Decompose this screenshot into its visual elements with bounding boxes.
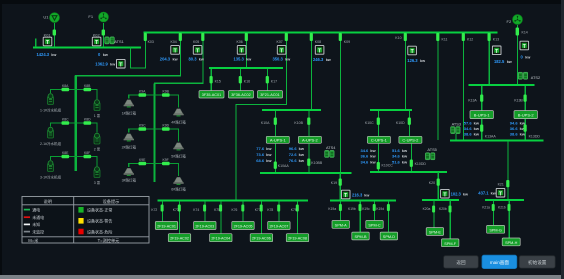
values under B-UPS-2: [510, 121, 526, 137]
svg-text:K19b: K19b: [348, 207, 356, 211]
lamp box 4: [173, 109, 183, 117]
svg-text:M=米: M=米: [28, 237, 39, 244]
breaker pill K10BB: [307, 159, 310, 166]
breaker pill K13A: [480, 95, 483, 102]
breaker pill K74: [203, 205, 206, 212]
breaker pill K11: [436, 33, 439, 41]
measuring unit K10: [408, 46, 417, 55]
svg-text:ATS5: ATS5: [427, 147, 436, 152]
bus SPM-E sub-bus: [422, 199, 459, 201]
svg-text:U1: U1: [43, 14, 49, 19]
bus CB2 (C bottom bus): [370, 171, 447, 173]
wire ladder trunk 2: [153, 83, 155, 182]
svg-text:K14: K14: [522, 31, 528, 35]
legend line sample unknown: [24, 223, 30, 225]
svg-text:K19c: K19c: [362, 207, 370, 211]
breaker pill K14: [516, 28, 519, 36]
lamp box 6: [173, 177, 183, 185]
wire K20 feed drop: [437, 172, 439, 200]
svg-text:设备状态-危险: 设备状态-危险: [87, 228, 112, 234]
svg-text:A-UPS-1: A-UPS-1: [270, 138, 287, 143]
svg-text:5#路灯箱: 5#路灯箱: [171, 153, 186, 158]
svg-text:K21a: K21a: [482, 206, 490, 210]
svg-text:K13A: K13A: [468, 98, 477, 102]
svg-text:kw: kw: [266, 152, 272, 157]
svg-text:kw: kw: [299, 152, 305, 157]
measuring unit K19: [341, 190, 350, 199]
wire column K05: [155, 33, 204, 95]
svg-text:102.3: 102.3: [451, 192, 462, 197]
wire K10CC column to C bottom bus: [378, 143, 380, 172]
load box 3F21-AC01: [258, 91, 283, 98]
lamp box 2: [124, 134, 134, 142]
svg-text:K77: K77: [255, 208, 261, 212]
svg-text:kw: kw: [491, 192, 496, 196]
breaker pill K20: [437, 179, 440, 186]
breaker pill on F1 drop: [102, 30, 105, 36]
breaker pill K8C: [62, 121, 70, 124]
wire drop K15: [210, 69, 212, 91]
values under A-UPS-2: [289, 146, 305, 163]
svg-text:kw: kw: [525, 55, 530, 59]
svg-text:未监控: 未监控: [32, 228, 44, 234]
measuring unit K01: [43, 37, 52, 46]
wire drop K76: [242, 201, 244, 222]
svg-text:K21b: K21b: [498, 206, 506, 210]
wire K21 feed drop: [507, 141, 509, 200]
svg-text:34.6: 34.6: [464, 126, 473, 131]
svg-text:1-1#冷水机组: 1-1#冷水机组: [40, 108, 62, 113]
svg-text:51.6: 51.6: [392, 159, 401, 164]
wire C-UPS-2 column: [409, 111, 411, 136]
legend frame: [22, 197, 149, 244]
svg-text:K19a: K19a: [328, 207, 336, 211]
svg-text:kw: kw: [520, 131, 526, 136]
breaker pill K9C: [139, 127, 147, 130]
generator F1: [99, 12, 109, 22]
lamp box 3: [124, 168, 134, 176]
svg-text:K9A: K9A: [139, 90, 146, 94]
values under C-UPS-2: [392, 148, 408, 165]
breaker pill K17: [266, 76, 269, 83]
wire drop K19a: [340, 201, 342, 221]
svg-text:K12: K12: [467, 38, 473, 42]
breaker pill K19a: [339, 204, 342, 211]
wire drop K74: [204, 201, 206, 222]
lamp box 1: [124, 100, 134, 108]
wire drop K21b: [508, 201, 510, 238]
svg-text:kw: kw: [474, 126, 480, 131]
svg-text:kw: kw: [103, 53, 108, 57]
bus SPM-G sub-bus: [485, 199, 524, 201]
svg-text:kw: kw: [299, 158, 305, 163]
pump motor 3: [94, 167, 100, 178]
svg-text:1 泵: 1 泵: [94, 113, 101, 118]
load box 2F19-AC07: [268, 222, 290, 230]
svg-text:T=测控单元: T=测控单元: [98, 237, 120, 244]
breaker pill K8B: [84, 88, 92, 91]
svg-text:K21: K21: [498, 183, 504, 187]
wire U1 drop to bus LB1: [54, 23, 56, 47]
breaker pill K9F: [162, 162, 170, 165]
svg-text:SPM-A: SPM-A: [335, 223, 347, 227]
bus CB1 (C-UPS sub-bus): [370, 109, 412, 111]
svg-text:K04: K04: [171, 40, 177, 44]
svg-text:3 泵: 3 泵: [94, 180, 101, 185]
breaker pill K77: [260, 205, 263, 212]
svg-text:K06: K06: [237, 40, 243, 44]
breaker pill K19b: [359, 204, 362, 211]
svg-text:K8E: K8E: [62, 151, 69, 155]
svg-text:57.6: 57.6: [464, 121, 473, 126]
breaker pill K07: [285, 33, 288, 41]
wire stub at left end of bus LB1: [35, 39, 37, 48]
svg-text:K9D: K9D: [163, 124, 170, 128]
breaker pill K21: [506, 180, 509, 187]
wire B-UPS-1 column: [481, 86, 483, 140]
breaker pill K13AA: [480, 125, 483, 132]
svg-text:K73: K73: [173, 208, 179, 212]
wire column K04: [76, 33, 181, 89]
breaker pill K10A: [274, 118, 277, 125]
wire rung row2: [51, 123, 98, 133]
pump motor 1: [94, 100, 100, 111]
legend line sample unmonitored: [24, 231, 30, 233]
svg-text:K03: K03: [148, 40, 154, 44]
breaker pill K8E: [62, 155, 70, 158]
svg-text:B-UPS-2: B-UPS-2: [518, 113, 535, 118]
breaker pill K73: [178, 205, 181, 212]
breaker pill K19d: [387, 204, 390, 211]
breaker pill K10D: [408, 118, 411, 125]
wire column K12 long drop bypassing B sub-bus: [463, 33, 465, 140]
legend line sample powered: [24, 209, 30, 211]
svg-text:通电: 通电: [32, 206, 40, 212]
wire B-UPS-2 column: [524, 86, 526, 140]
svg-text:34.6: 34.6: [392, 154, 401, 159]
svg-text:K8C: K8C: [62, 118, 69, 122]
svg-text:ATS3: ATS3: [452, 121, 461, 126]
svg-text:2F19-AC01: 2F19-AC01: [157, 225, 176, 229]
svg-text:350.3: 350.3: [273, 56, 284, 61]
chiller motor 1: [48, 94, 54, 105]
load box 3F35-AC01: [199, 91, 224, 98]
svg-text:K10C: K10C: [365, 121, 374, 125]
svg-text:kw: kw: [299, 146, 305, 151]
breaker pill K03: [144, 33, 147, 41]
wire drop K17: [267, 69, 269, 91]
wire K10AA column to A bottom bus: [275, 143, 277, 172]
svg-text:ATS4: ATS4: [326, 145, 336, 150]
svg-text:3F35-AC01: 3F35-AC01: [202, 93, 221, 97]
breaker pill K10CC: [377, 162, 380, 169]
wire column K13 to B sub-bus: [488, 33, 490, 85]
svg-text:K13DD: K13DD: [529, 134, 541, 138]
svg-text:1#路灯箱: 1#路灯箱: [122, 110, 137, 115]
breaker pill K9E: [139, 162, 147, 165]
svg-text:SPM-D: SPM-D: [383, 235, 395, 239]
svg-text:77.6: 77.6: [256, 146, 265, 151]
svg-text:38.6: 38.6: [464, 131, 473, 136]
svg-text:说明: 说明: [44, 198, 52, 205]
legend line sample unpowered: [24, 216, 30, 218]
ATS1 transfer switch: [105, 37, 115, 44]
wire ladder trunk 1: [75, 76, 77, 171]
svg-text:SPM-F: SPM-F: [444, 242, 456, 246]
breaker pill K20a: [432, 206, 435, 213]
svg-text:K09: K09: [344, 40, 350, 44]
bus BB2 (B bottom bus): [450, 139, 543, 141]
bus MB (main bus): [144, 32, 498, 34]
svg-text:kw: kw: [474, 131, 480, 136]
legend divider vertical: [73, 197, 75, 244]
wire drop K19c: [373, 201, 375, 221]
measuring unit K20: [441, 189, 450, 198]
svg-text:设备状态-正常: 设备状态-正常: [87, 207, 112, 213]
load box 2F19-AC04: [210, 234, 232, 242]
measuring unit K14: [520, 41, 529, 50]
svg-text:K74: K74: [193, 208, 199, 212]
svg-text:K8B: K8B: [84, 84, 91, 88]
load box 2F19-AC03: [194, 222, 216, 230]
breaker pill K13DD: [524, 125, 527, 132]
legend square warning: [78, 218, 83, 224]
breaker pill K9A: [139, 93, 147, 96]
wire column K06 feeds 3F sub-bus: [246, 33, 248, 68]
load box SPM-A: [332, 221, 349, 229]
wire ATS3 stub to B bottom bus: [455, 134, 457, 141]
wire column K07 feeds 2F19 bus: [236, 33, 287, 200]
svg-text:36.6: 36.6: [361, 154, 370, 159]
utility source U1: [50, 13, 60, 23]
svg-text:K10BB: K10BB: [311, 161, 323, 165]
breaker pill K8D: [84, 121, 92, 124]
load box SPM-D: [380, 232, 397, 240]
breaker pill K08: [310, 33, 313, 41]
svg-text:kw: kw: [326, 58, 331, 62]
UPS box A-UPS-2: [298, 136, 321, 143]
bus 3F sub-bus: [209, 67, 283, 69]
svg-text:2 泵: 2 泵: [94, 146, 101, 151]
svg-text:kw: kw: [402, 159, 408, 164]
svg-text:1362.9: 1362.9: [95, 62, 108, 67]
svg-text:SPM-G: SPM-G: [489, 228, 501, 232]
svg-text:K8A: K8A: [62, 84, 69, 88]
svg-text:K8D: K8D: [84, 118, 91, 122]
svg-text:SPM-C: SPM-C: [368, 223, 380, 227]
load box 2F19-AC05: [232, 222, 254, 230]
breaker pill K10C: [377, 118, 380, 125]
chiller motor 2: [48, 127, 54, 138]
breaker pill K9B: [162, 93, 170, 96]
load box SPM-C: [366, 221, 383, 229]
measuring unit K02: [92, 37, 101, 46]
svg-text:K9E: K9E: [139, 158, 146, 162]
button initial settings: [519, 256, 555, 268]
breaker pill K21b: [508, 204, 511, 211]
svg-text:C-UPS-1: C-UPS-1: [371, 138, 388, 143]
load box 2F19-AC08: [286, 234, 308, 242]
load box 2F19-AC01: [155, 222, 177, 230]
svg-text:80.3: 80.3: [189, 56, 198, 61]
wire column K10 feeds C-UPS bus: [405, 33, 407, 110]
svg-text:204.3: 204.3: [160, 56, 171, 61]
wire F2 column down to B sub-bus: [517, 25, 519, 85]
svg-text:kw: kw: [474, 121, 480, 126]
breaker pill K9D: [162, 127, 170, 130]
load box 2F19-AC06: [250, 234, 272, 242]
svg-text:ATS2: ATS2: [531, 75, 540, 80]
svg-text:K19: K19: [331, 181, 337, 185]
values under C-UPS-1: [361, 148, 377, 165]
svg-text:73.6: 73.6: [256, 152, 265, 157]
svg-text:182.5: 182.5: [494, 59, 505, 64]
svg-text:K20b: K20b: [439, 207, 447, 211]
svg-text:K9F: K9F: [163, 158, 169, 162]
bus LB1 (left 0.4kV bus): [33, 47, 141, 49]
svg-text:kw: kw: [370, 148, 376, 153]
breaker pill K10DD: [410, 160, 413, 167]
ATS3 transfer switch: [451, 127, 461, 134]
load box SPM-H: [502, 238, 520, 246]
wire F1 drop to bus LB1: [103, 23, 105, 47]
svg-text:51.6: 51.6: [392, 148, 401, 153]
svg-text:kw: kw: [110, 63, 115, 67]
breaker pill on U1 drop: [53, 30, 56, 36]
wire rung row1: [51, 90, 98, 100]
breaker pill K76: [241, 205, 244, 212]
svg-text:K15: K15: [215, 79, 221, 83]
svg-text:kw: kw: [463, 193, 468, 197]
measuring unit K21: [496, 188, 505, 197]
svg-text:K13: K13: [493, 38, 499, 42]
breaker pill K8F: [84, 155, 92, 158]
chiller motor 3: [48, 161, 54, 172]
svg-text:F2: F2: [507, 19, 512, 24]
breaker pill K10AA: [274, 162, 277, 169]
svg-text:2F19-AC06: 2F19-AC06: [252, 237, 271, 241]
load box 3F36-AC02: [229, 91, 254, 98]
svg-text:A-UPS-2: A-UPS-2: [302, 138, 319, 143]
breaker pill K09: [339, 33, 342, 41]
svg-text:K10A: K10A: [261, 121, 270, 125]
svg-text:K78: K78: [267, 208, 273, 212]
svg-text:C-UPS-2: C-UPS-2: [402, 138, 419, 143]
legend square danger: [78, 229, 83, 235]
svg-text:kw: kw: [364, 193, 369, 197]
svg-text:K07: K07: [277, 40, 283, 44]
svg-text:K13AA: K13AA: [485, 134, 497, 138]
svg-text:SPM-E: SPM-E: [429, 231, 441, 235]
svg-text:68.6: 68.6: [256, 158, 265, 163]
svg-text:3F36-AC02: 3F36-AC02: [231, 93, 250, 97]
breaker pill K12: [462, 33, 465, 41]
svg-text:K20a: K20a: [423, 207, 431, 211]
bus BB1 (B-UPS sub-bus): [469, 84, 535, 86]
svg-text:K10D: K10D: [396, 121, 405, 125]
wire drop K20b: [449, 201, 451, 239]
svg-text:K72: K72: [151, 208, 157, 212]
load box SPM-G: [487, 225, 505, 233]
UPS box C-UPS-2: [399, 136, 422, 143]
breaker pill K10: [404, 33, 407, 41]
svg-text:K16: K16: [244, 79, 250, 83]
load box SPM-B: [352, 232, 369, 240]
svg-text:2F19-AC05: 2F19-AC05: [234, 225, 253, 229]
svg-text:kw: kw: [402, 154, 408, 159]
svg-text:返回: 返回: [456, 259, 466, 266]
breaker pill K79: [296, 205, 299, 212]
load box SPM-F: [442, 239, 459, 247]
wire drop K21a: [492, 201, 494, 226]
breaker pill K15: [210, 76, 213, 83]
svg-text:设备状态-警告: 设备状态-警告: [87, 218, 112, 224]
svg-text:未通电: 未通电: [32, 214, 44, 220]
wire drop K77: [260, 201, 262, 234]
svg-text:2F19-AC03: 2F19-AC03: [195, 225, 214, 229]
svg-text:K9B: K9B: [163, 90, 170, 94]
svg-text:2#路灯箱: 2#路灯箱: [122, 144, 137, 149]
wire drop K75: [220, 201, 222, 234]
breaker pill K13B: [524, 95, 527, 102]
bus AB1 (A-UPS sub-bus): [262, 109, 321, 111]
svg-text:kw: kw: [266, 158, 272, 163]
pump motor 2: [94, 133, 100, 144]
breaker pill K16: [239, 76, 242, 83]
svg-text:设备提示: 设备提示: [103, 198, 120, 205]
wire tie from bus LB1 down to K03 column: [131, 34, 146, 68]
svg-text:K20: K20: [429, 181, 435, 185]
breaker pill K8A: [62, 88, 70, 91]
svg-text:K05: K05: [193, 40, 199, 44]
svg-text:2F19-AC04: 2F19-AC04: [211, 237, 230, 241]
svg-text:K13B: K13B: [514, 98, 523, 102]
svg-text:kw: kw: [402, 148, 408, 153]
svg-text:34.6: 34.6: [361, 159, 370, 164]
breaker pill K05: [201, 33, 204, 41]
legend square normal: [78, 207, 83, 213]
svg-text:216.3: 216.3: [352, 192, 363, 197]
svg-text:K79: K79: [291, 208, 297, 212]
breaker pill K06: [245, 33, 248, 41]
button main screen: [482, 255, 517, 268]
wire column K11 long drop: [437, 33, 439, 140]
wire column K09 long drop to A bottom bus: [340, 33, 342, 173]
svg-text:kw: kw: [507, 60, 512, 64]
svg-text:kw: kw: [173, 57, 178, 61]
svg-text:2F19-AC08: 2F19-AC08: [288, 237, 307, 241]
bus 2F19: [158, 199, 309, 201]
legend divider footer: [22, 236, 149, 238]
wire K10BB column to A bottom bus: [308, 143, 310, 172]
svg-text:3-1#冷水机组: 3-1#冷水机组: [40, 175, 62, 180]
svg-text:1424.3: 1424.3: [37, 52, 50, 57]
ATS4 transfer switch: [325, 150, 335, 157]
svg-text:F1: F1: [88, 14, 93, 19]
breaker pill K19: [339, 179, 342, 186]
svg-text:K17: K17: [271, 79, 277, 83]
svg-text:2-1#冷水机组: 2-1#冷水机组: [40, 141, 62, 146]
wire column K08 feeds A-UPS bus: [311, 33, 313, 110]
svg-text:K10CC: K10CC: [382, 163, 394, 167]
svg-text:K10B: K10B: [294, 121, 303, 125]
wire drop K72: [161, 201, 163, 222]
svg-text:437.1: 437.1: [478, 191, 489, 196]
bus SPM-A sub-bus: [330, 200, 396, 202]
svg-text:126.3: 126.3: [407, 58, 418, 63]
svg-text:ATS1: ATS1: [114, 39, 123, 44]
svg-text:K08: K08: [315, 40, 321, 44]
